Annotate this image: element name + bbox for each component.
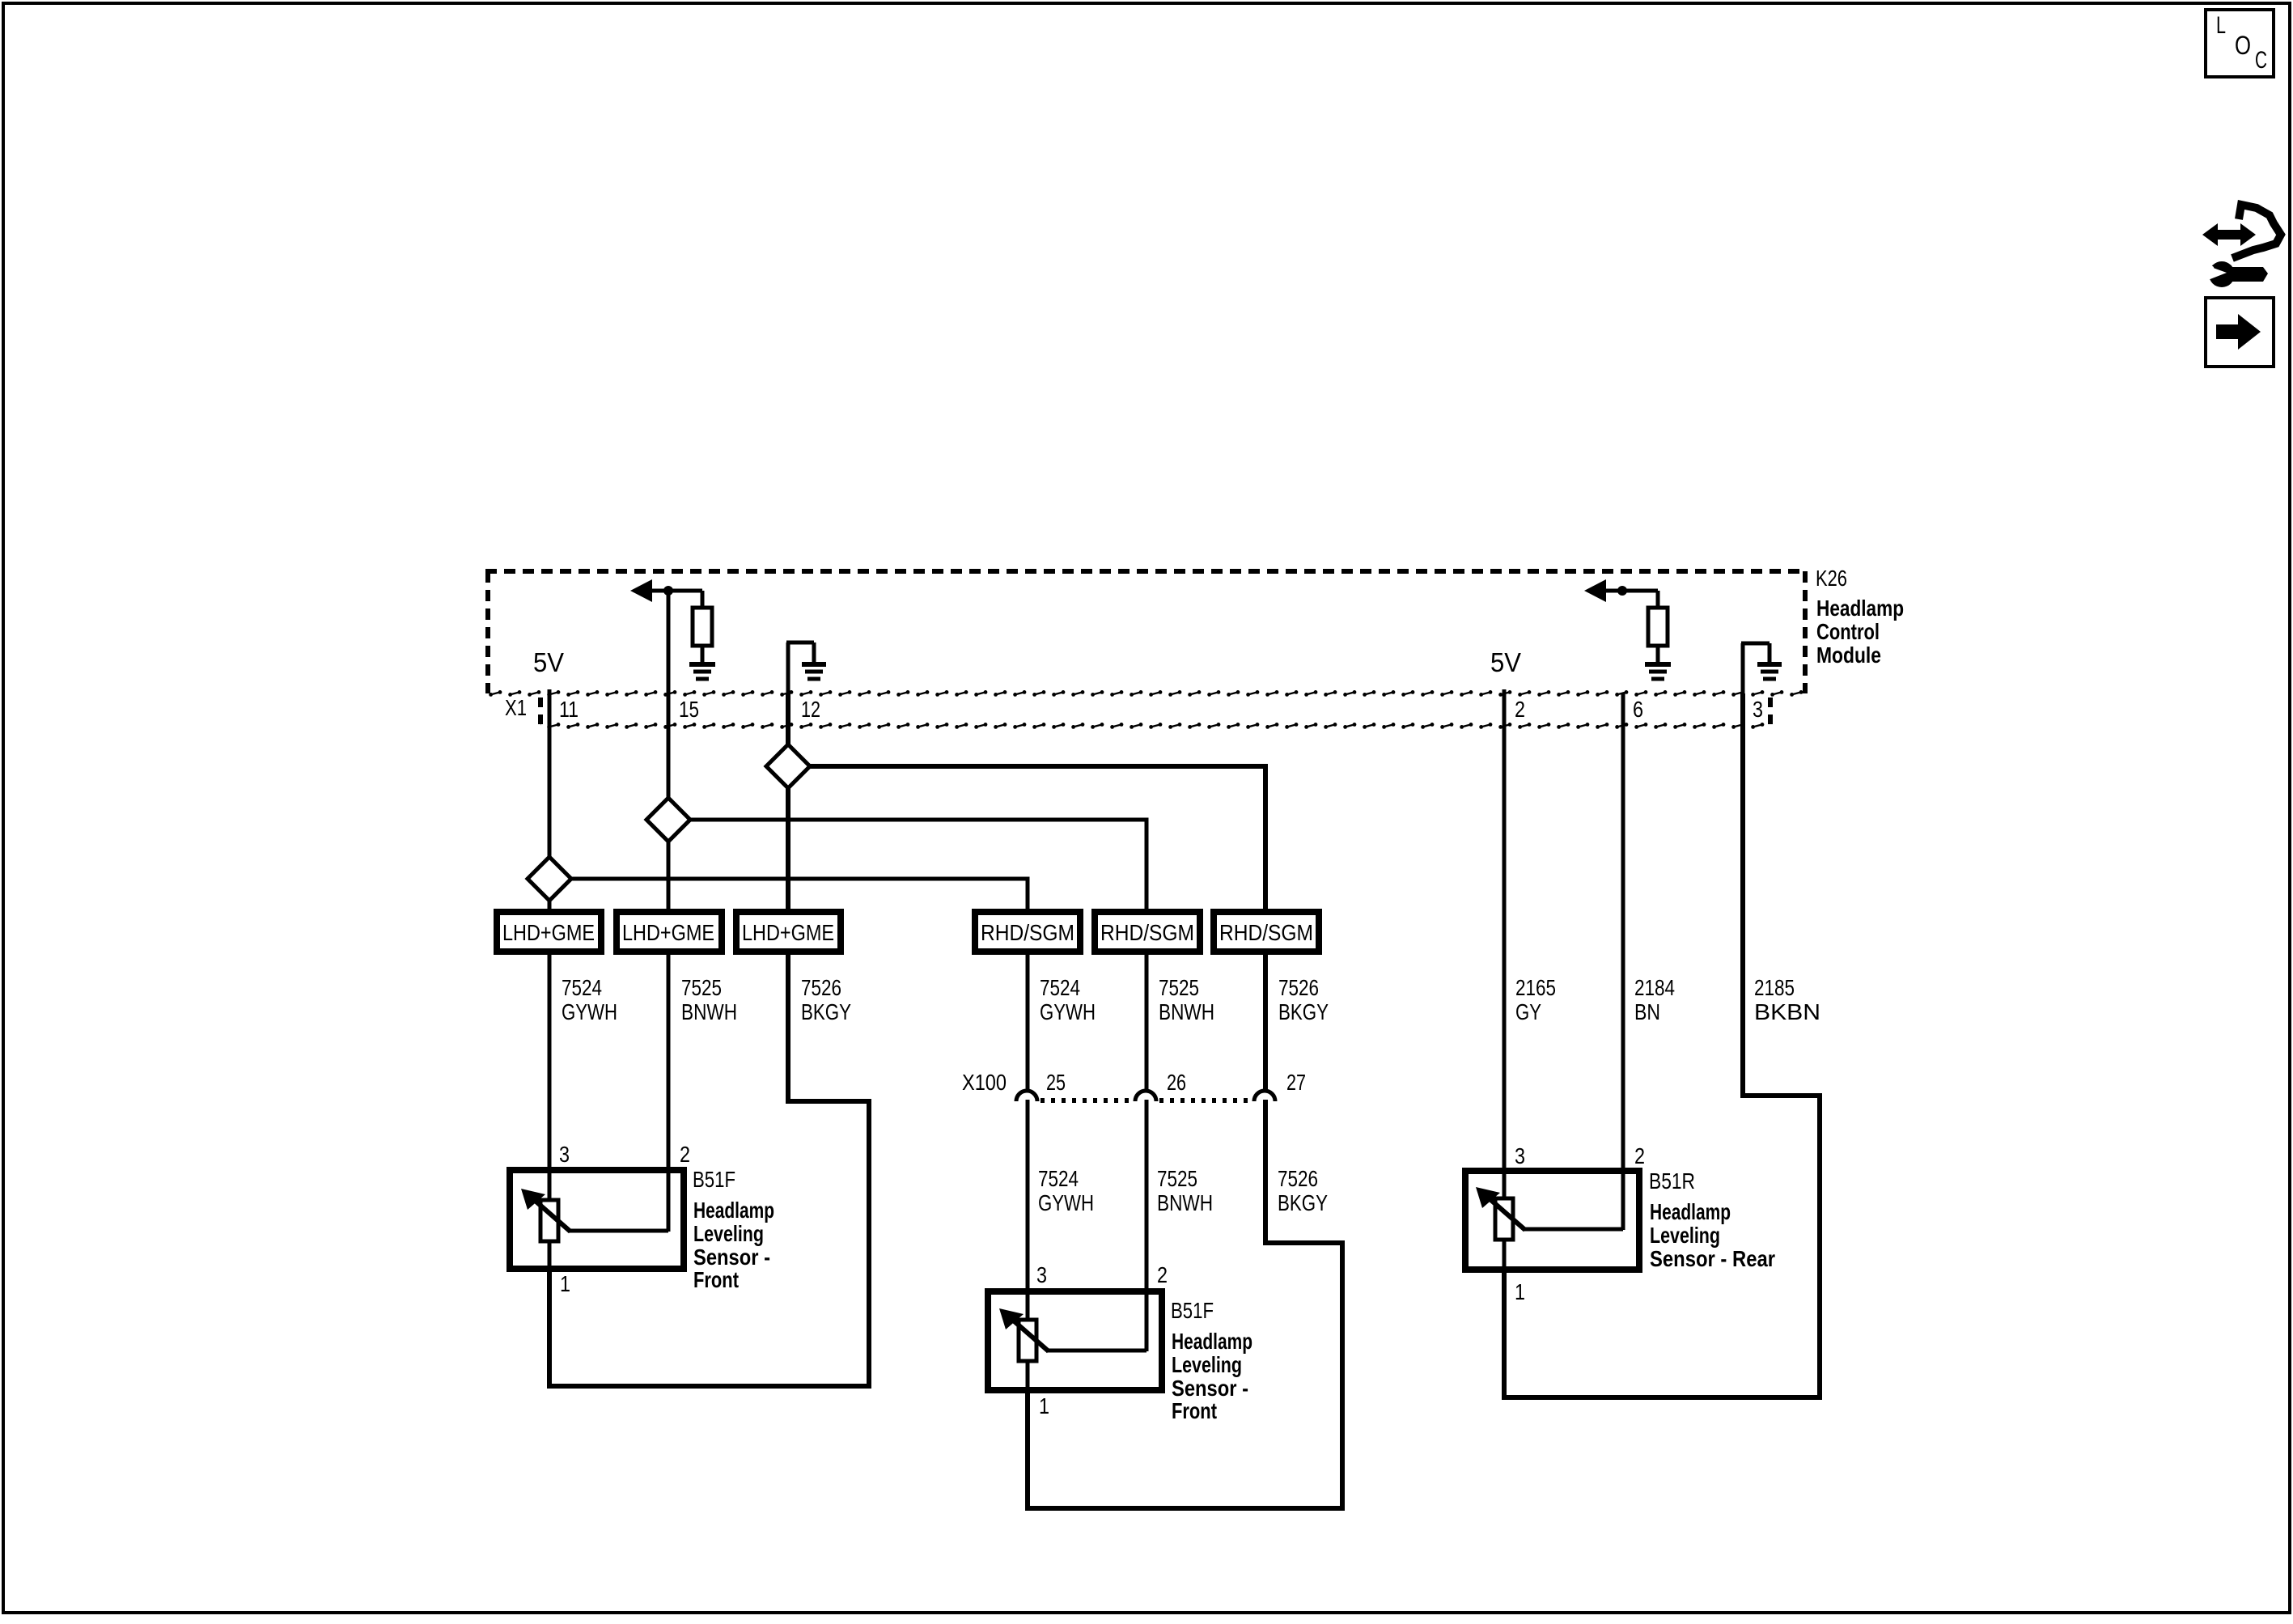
wire label 7526 BKGY (left): [801, 975, 851, 1024]
ground internal pin 3: [1757, 664, 1782, 679]
svg-text:7525: 7525: [1157, 1166, 1197, 1191]
resistor R internal pin 6: [1648, 591, 1668, 662]
svg-text:LHD+GME: LHD+GME: [502, 920, 595, 945]
svg-text:1: 1: [560, 1271, 570, 1296]
svg-text:BNWH: BNWH: [1159, 999, 1214, 1024]
svg-text:GYWH: GYWH: [1038, 1190, 1094, 1215]
svg-text:L: L: [2216, 12, 2226, 39]
svg-text:BN: BN: [1634, 999, 1660, 1024]
svg-text:Leveling: Leveling: [1650, 1223, 1720, 1248]
splice diamond on pin 11 wire: [528, 857, 571, 901]
svg-text:Leveling: Leveling: [693, 1221, 764, 1246]
svg-text:X100: X100: [962, 1070, 1007, 1095]
wire splice branch from diamond pin 12 to RHD/SGM box 3: [809, 766, 1265, 952]
svg-text:GYWH: GYWH: [562, 999, 617, 1024]
svg-text:12: 12: [801, 697, 820, 722]
svg-text:3: 3: [1036, 1262, 1047, 1287]
wire label 2184 BN: [1634, 975, 1675, 1024]
svg-text:7525: 7525: [681, 975, 722, 1000]
svg-text:2184: 2184: [1634, 975, 1675, 1000]
ground internal pin 15: [689, 664, 715, 679]
wire label 7525 BNWH (mid upper): [1159, 975, 1214, 1024]
svg-text:Leveling: Leveling: [1172, 1352, 1242, 1377]
wire pin 3 internal: [1741, 643, 1770, 694]
svg-text:2185: 2185: [1754, 975, 1795, 1000]
wire splice branch from diamond pin 11 to RHD/SGM box 1: [570, 879, 1028, 1291]
svg-text:Front: Front: [693, 1267, 739, 1292]
wire label 7525 BNWH (mid lower): [1157, 1166, 1213, 1215]
module K26 dashed box: [485, 571, 1805, 693]
svg-text:Front: Front: [1172, 1398, 1217, 1423]
wire 2185 BKBN (pin 3 return loop to sensor B51R pin 1): [1504, 693, 1820, 1397]
wire splice branch from diamond pin 15 to RHD/SGM box 2: [689, 820, 1146, 1291]
svg-text:Sensor -: Sensor -: [693, 1245, 770, 1270]
wire 7526 BKGY right branch (to middle sensor pin 1 return): [1028, 952, 1342, 1508]
svg-text:BKBN: BKBN: [1754, 999, 1820, 1024]
connector X1 strip: [488, 689, 1805, 730]
wire label 7525 BNWH (left): [681, 975, 737, 1024]
svg-text:15: 15: [679, 697, 699, 722]
svg-text:11: 11: [559, 697, 579, 722]
svg-text:LHD+GME: LHD+GME: [742, 920, 834, 945]
svg-text:LHD+GME: LHD+GME: [622, 920, 714, 945]
svg-text:Module: Module: [1816, 642, 1881, 668]
LOC reference icon: [2206, 10, 2274, 77]
option box LHD+GME 3: [736, 912, 841, 952]
wire 2165 GY (pin 2 to sensor B51R pin 3): [1503, 689, 1507, 1171]
splice diamond on pin 15 wire: [646, 798, 690, 842]
svg-text:BNWH: BNWH: [1157, 1190, 1213, 1215]
svg-text:7524: 7524: [1040, 975, 1080, 1000]
svg-text:O: O: [2235, 31, 2251, 60]
svg-text:Headlamp: Headlamp: [1650, 1199, 1731, 1224]
svg-text:5V: 5V: [1490, 647, 1521, 677]
svg-text:7524: 7524: [1038, 1166, 1079, 1191]
svg-text:BKGY: BKGY: [1278, 1190, 1328, 1215]
sensor B51R Headlamp Leveling Sensor Rear: [1465, 1171, 1639, 1270]
svg-text:3: 3: [559, 1142, 570, 1167]
svg-text:27: 27: [1286, 1070, 1306, 1095]
signal arrow pin 15: [630, 579, 702, 602]
junction dot pin 15: [663, 586, 673, 596]
svg-text:5V: 5V: [533, 647, 564, 677]
svg-text:GY: GY: [1515, 999, 1541, 1024]
wire pin 12 internal: [786, 642, 814, 694]
forward-arrow icon: [2206, 298, 2274, 367]
potentiometer in sensor B51R: [1476, 1187, 1623, 1240]
svg-text:BNWH: BNWH: [681, 999, 737, 1024]
sensor B51F Headlamp Leveling Sensor Front (middle): [988, 1291, 1162, 1390]
label Headlamp Control Module: [1816, 596, 1904, 668]
ground internal pin 6: [1645, 664, 1671, 679]
svg-text:1: 1: [1039, 1393, 1049, 1418]
svg-text:B51F: B51F: [1171, 1298, 1214, 1323]
svg-text:X1: X1: [505, 695, 527, 720]
svg-text:Headlamp: Headlamp: [1172, 1329, 1252, 1354]
svg-text:2: 2: [1515, 697, 1525, 722]
wire label 2165 GY: [1515, 975, 1556, 1024]
resistor R internal pin 15: [693, 591, 712, 662]
option box RHD/SGM 3: [1214, 912, 1319, 952]
ground internal pin 12: [802, 664, 826, 679]
wire label 7524 GYWH (left): [562, 975, 617, 1024]
svg-text:3: 3: [1753, 697, 1763, 722]
svg-text:7526: 7526: [1278, 975, 1319, 1000]
splice diamond on pin 12 wire: [766, 744, 810, 788]
wire label 7526 BKGY (mid upper): [1278, 975, 1329, 1024]
svg-text:7524: 7524: [562, 975, 602, 1000]
wire label 7526 BKGY (mid lower): [1278, 1166, 1328, 1215]
svg-text:K26: K26: [1816, 566, 1847, 591]
svg-text:RHD/SGM: RHD/SGM: [981, 920, 1074, 945]
svg-text:Headlamp: Headlamp: [1816, 596, 1904, 621]
svg-text:6: 6: [1633, 697, 1643, 722]
svg-text:GYWH: GYWH: [1040, 999, 1096, 1024]
wire label 7524 GYWH (mid lower): [1038, 1166, 1094, 1215]
svg-text:BKGY: BKGY: [801, 999, 851, 1024]
option box LHD+GME 1: [497, 912, 601, 952]
option box LHD+GME 2: [617, 912, 722, 952]
wire label 2185 BKBN: [1754, 975, 1820, 1024]
label Headlamp Leveling Sensor - Rear: [1650, 1199, 1775, 1271]
svg-text:BKGY: BKGY: [1278, 999, 1329, 1024]
svg-text:7526: 7526: [801, 975, 841, 1000]
svg-text:C: C: [2255, 47, 2267, 74]
svg-text:1: 1: [1515, 1279, 1525, 1304]
wire 2184 BN (pin 6 to sensor B51R pin 2): [1621, 693, 1625, 1171]
wire label 7524 GYWH (mid upper): [1040, 975, 1096, 1024]
svg-text:7525: 7525: [1159, 975, 1199, 1000]
wire 7524 GYWH left (pin 11 to sensor B51F front pin 3): [548, 689, 552, 1170]
svg-text:7526: 7526: [1278, 1166, 1318, 1191]
wire 7525 BNWH left (pin 15 to sensor B51F front pin 2): [667, 593, 671, 1170]
option box RHD/SGM 1: [975, 912, 1080, 952]
svg-text:B51F: B51F: [693, 1167, 735, 1192]
svg-text:2: 2: [1157, 1262, 1168, 1287]
svg-text:2: 2: [680, 1142, 690, 1167]
junction dot pin 6: [1617, 586, 1627, 596]
svg-text:Headlamp: Headlamp: [693, 1198, 774, 1223]
svg-text:25: 25: [1046, 1070, 1066, 1095]
potentiometer in sensor B51F left: [521, 1189, 668, 1241]
wire 7526 BKGY left (pin 12 return loop to sensor pin 1): [549, 693, 869, 1386]
option box RHD/SGM 2: [1095, 912, 1200, 952]
svg-text:2165: 2165: [1515, 975, 1556, 1000]
label Headlamp Leveling Sensor - Front (left): [693, 1198, 774, 1292]
diagnostic scan-tool icon: [2202, 205, 2281, 287]
svg-text:Control: Control: [1816, 619, 1880, 644]
svg-text:B51R: B51R: [1649, 1168, 1695, 1194]
svg-text:26: 26: [1167, 1070, 1186, 1095]
svg-text:RHD/SGM: RHD/SGM: [1100, 920, 1194, 945]
svg-text:RHD/SGM: RHD/SGM: [1219, 920, 1313, 945]
label Headlamp Leveling Sensor - Front (middle): [1172, 1329, 1252, 1423]
connector X100 (in-line, pins 25 26 27): [1016, 1091, 1275, 1101]
potentiometer in sensor B51F middle: [999, 1308, 1146, 1361]
svg-text:3: 3: [1515, 1143, 1525, 1168]
signal arrow pin 6: [1584, 579, 1658, 602]
svg-text:Sensor -: Sensor -: [1172, 1376, 1248, 1401]
svg-text:Sensor - Rear: Sensor - Rear: [1650, 1246, 1775, 1271]
svg-text:2: 2: [1634, 1143, 1645, 1168]
sensor B51F Headlamp Leveling Sensor Front (left): [510, 1170, 684, 1269]
